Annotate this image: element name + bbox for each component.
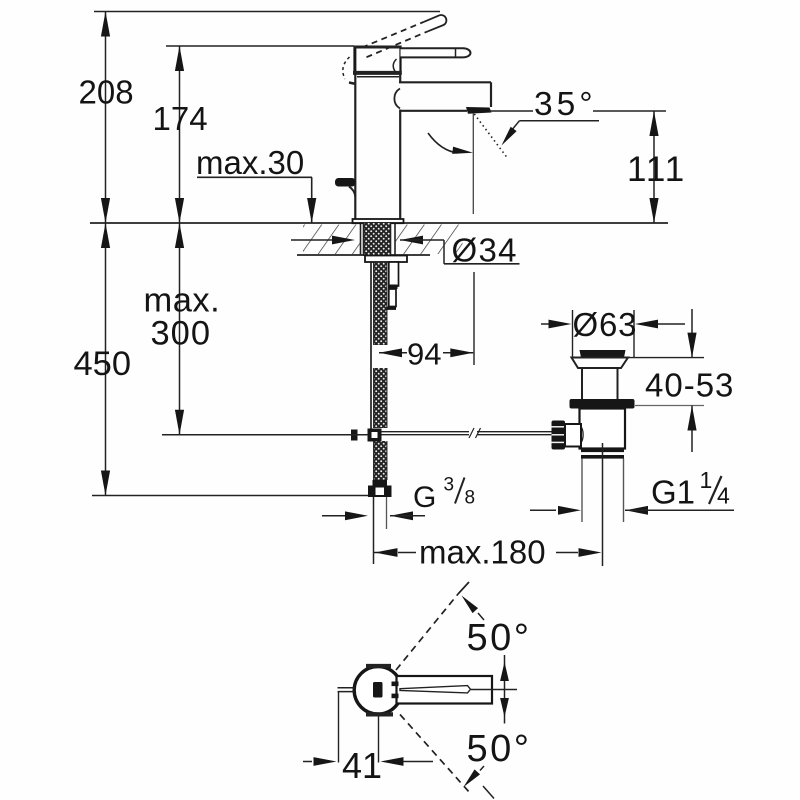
svg-text:G1: G1 <box>651 474 695 511</box>
svg-text:3: 3 <box>444 475 455 496</box>
svg-text:450: 450 <box>74 345 132 383</box>
svg-text:40-53: 40-53 <box>645 367 734 404</box>
svg-text:300: 300 <box>151 315 212 353</box>
svg-text:94: 94 <box>407 337 441 372</box>
svg-text:G: G <box>413 481 436 514</box>
svg-text:111: 111 <box>627 150 686 189</box>
svg-text:174: 174 <box>153 100 208 137</box>
svg-text:Ø63: Ø63 <box>573 306 638 343</box>
svg-text:1: 1 <box>700 467 713 493</box>
svg-text:max.30: max.30 <box>196 144 304 181</box>
svg-text:35°: 35° <box>534 86 597 123</box>
svg-text:max.180: max.180 <box>419 534 546 571</box>
svg-text:50°: 50° <box>467 617 532 659</box>
svg-text:4: 4 <box>717 483 730 509</box>
svg-text:Ø34: Ø34 <box>452 232 518 269</box>
svg-text:50°: 50° <box>467 728 532 770</box>
svg-text:208: 208 <box>79 74 134 111</box>
svg-text:8: 8 <box>465 488 476 509</box>
svg-text:41: 41 <box>342 745 382 786</box>
